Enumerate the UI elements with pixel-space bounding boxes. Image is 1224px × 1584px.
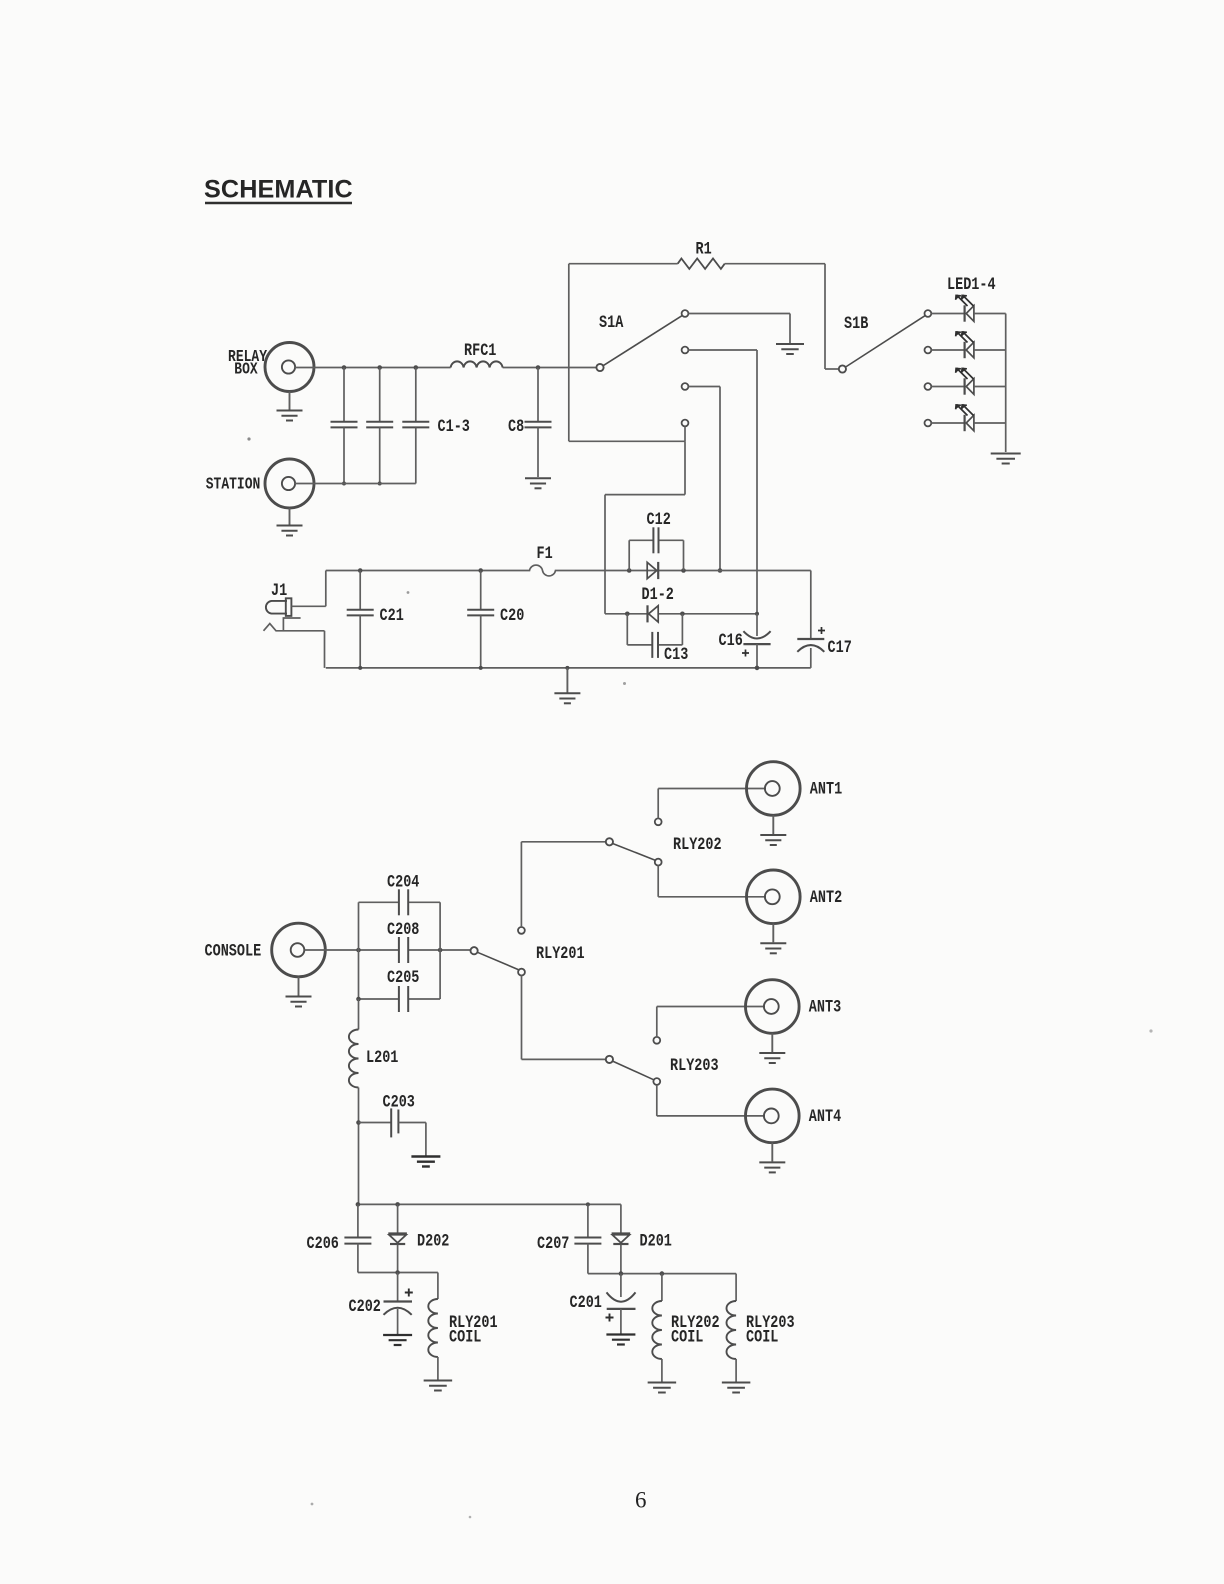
inductor RLY202 coil bbox=[652, 1274, 719, 1382]
switch RLY203 throw up bbox=[653, 1037, 660, 1044]
connector ANT3 bbox=[746, 980, 842, 1034]
capacitor C208 bbox=[387, 920, 419, 963]
wire coil bus left-lower bbox=[358, 1270, 438, 1275]
switch S1B arm bbox=[846, 316, 925, 367]
wire LED2 to rail bbox=[974, 349, 1006, 351]
wire L201 to coil bus bbox=[358, 1088, 360, 1205]
switch S1B throw 2 bbox=[925, 347, 932, 354]
switch S1B throw 1 bbox=[925, 310, 932, 317]
svg-text:C8: C8 bbox=[508, 417, 524, 437]
wire S1A throw2 down bbox=[688, 350, 757, 614]
wire J1 sleeve bbox=[264, 618, 325, 668]
wire S1A throw4 jog down bbox=[605, 441, 685, 614]
switch RLY201 arm bbox=[478, 952, 519, 969]
svg-text:R1: R1 bbox=[696, 239, 712, 259]
switch RLY201 throw up bbox=[518, 927, 525, 934]
switch RLY203 throw down bbox=[653, 1078, 660, 1085]
svg-text:C205: C205 bbox=[387, 968, 419, 988]
fuse F1 label bbox=[537, 544, 553, 564]
wire C13 branch bbox=[627, 614, 682, 645]
connector ANT2 bbox=[747, 870, 843, 924]
capacitor C1 (first of C1-3) bbox=[331, 368, 358, 486]
capacitor C13 bbox=[652, 632, 688, 665]
node: DC top wire dots bbox=[358, 568, 686, 573]
ground (ANT3) bbox=[759, 1033, 785, 1063]
connector ANT4 bbox=[746, 1089, 842, 1143]
switch S1A throw 3 bbox=[682, 383, 689, 390]
svg-text:C12: C12 bbox=[647, 510, 671, 530]
diode D202 bbox=[388, 1204, 449, 1272]
capacitor C12 bbox=[647, 510, 671, 554]
wire D2 branch bbox=[605, 612, 759, 617]
svg-text:C206: C206 bbox=[307, 1234, 339, 1254]
svg-text:S1B: S1B bbox=[844, 314, 868, 334]
capacitor C20 bbox=[467, 571, 524, 668]
wire S1A throw3 down bbox=[688, 387, 722, 573]
wire R1 to S1B bbox=[725, 264, 839, 369]
inductor L201 bbox=[349, 999, 398, 1088]
connector J2 RELAY BOX bbox=[228, 343, 314, 392]
wire console to RLY201 bbox=[305, 948, 471, 953]
connector J3 STATION bbox=[206, 459, 314, 508]
wire S1B throw1 to LED1 bbox=[931, 313, 964, 315]
ground (RLY202 coil) bbox=[648, 1383, 677, 1393]
wire station bus bbox=[295, 483, 416, 485]
wire DC box bottom bbox=[326, 666, 811, 671]
svg-text:C17: C17 bbox=[828, 638, 852, 658]
capacitor C201 electrolytic bbox=[570, 1274, 636, 1334]
svg-text:S1A: S1A bbox=[599, 313, 624, 333]
wire ANT3 feed bbox=[657, 1007, 765, 1037]
wire coil bus right-lower bbox=[588, 1271, 736, 1276]
switch S1B pole bbox=[839, 314, 868, 373]
wire S1A throw1 to ground bbox=[688, 314, 790, 344]
svg-text:BOX: BOX bbox=[234, 361, 257, 379]
ground (C8) bbox=[525, 478, 551, 488]
switch RLY202 pole bbox=[606, 835, 722, 855]
svg-text:C208: C208 bbox=[387, 920, 419, 940]
ground (S1A throw1) bbox=[776, 344, 804, 354]
capacitor C16 bbox=[719, 614, 771, 668]
diode LED4 bbox=[956, 405, 974, 432]
switch RLY203 pole bbox=[606, 1056, 719, 1076]
wire LED3 to rail bbox=[974, 386, 1006, 388]
wire ANT2 feed bbox=[658, 866, 766, 897]
inductor RFC1 bbox=[451, 341, 503, 368]
svg-text:C202: C202 bbox=[349, 1297, 381, 1317]
ground (ANT1) bbox=[760, 815, 786, 845]
inductor RLY201 coil bbox=[428, 1273, 497, 1380]
wire ANT1 feed bbox=[658, 789, 766, 819]
svg-text:COIL: COIL bbox=[671, 1327, 703, 1347]
switch S1A throw 1 bbox=[682, 310, 689, 317]
diode LED3 bbox=[956, 368, 974, 395]
svg-text:ANT1: ANT1 bbox=[810, 779, 842, 799]
switch S1B throw 4 bbox=[925, 420, 932, 427]
wire top to R1 bbox=[569, 263, 678, 265]
svg-text:C204: C204 bbox=[387, 872, 419, 892]
capacitor C2 (second of C1-3) bbox=[366, 368, 393, 486]
switch S1A throw 2 bbox=[682, 347, 689, 354]
svg-text:C21: C21 bbox=[380, 606, 404, 626]
wire S1A throw4 to left riser bbox=[569, 426, 685, 441]
svg-text:C20: C20 bbox=[500, 606, 524, 626]
ground (LED rail) bbox=[991, 454, 1021, 464]
resistor R1 bbox=[678, 239, 725, 269]
svg-text:C1-3: C1-3 bbox=[438, 417, 470, 437]
svg-text:J1: J1 bbox=[271, 581, 287, 601]
switch RLY201 throw down bbox=[518, 969, 525, 976]
ground (C202) bbox=[383, 1335, 412, 1345]
svg-text:RLY201: RLY201 bbox=[536, 944, 585, 964]
switch S1B throw 3 bbox=[925, 383, 932, 390]
wire RLY201 up-throw to RLY202 bbox=[521, 842, 605, 927]
wire C12 branch bbox=[629, 540, 683, 570]
svg-text:F1: F1 bbox=[537, 544, 553, 564]
ground (RLY201 coil) bbox=[424, 1381, 453, 1391]
wire cap box left bbox=[358, 902, 360, 999]
connector ANT1 bbox=[747, 762, 843, 816]
ground (C203) bbox=[411, 1157, 440, 1167]
svg-text:COIL: COIL bbox=[449, 1327, 481, 1347]
diode D1 bbox=[647, 562, 658, 579]
capacitor C3 (third of C1-3) bbox=[402, 368, 429, 484]
switch S1A throw 4 bbox=[682, 420, 689, 427]
page number 6 bbox=[635, 1488, 647, 1513]
wire ANT4 feed bbox=[657, 1085, 765, 1116]
capacitor C17 bbox=[797, 571, 851, 668]
svg-text:D202: D202 bbox=[417, 1231, 449, 1251]
svg-text:LED1-4: LED1-4 bbox=[947, 275, 996, 295]
svg-text:CONSOLE: CONSOLE bbox=[205, 941, 262, 961]
capacitor C21 bbox=[347, 571, 404, 668]
ground (console) bbox=[286, 977, 312, 1007]
capacitor C202 electrolytic bbox=[349, 1273, 413, 1335]
connector J1 power jack bbox=[266, 581, 292, 616]
capacitor C204 bbox=[359, 872, 441, 915]
switch S1A arm bbox=[603, 316, 682, 366]
svg-text:RLY203: RLY203 bbox=[670, 1056, 719, 1076]
svg-text:STATION: STATION bbox=[206, 476, 261, 494]
svg-text:SCHEMATIC: SCHEMATIC bbox=[204, 176, 353, 204]
wire LED4 to rail bbox=[974, 422, 1006, 424]
ground (ANT2) bbox=[760, 924, 786, 954]
ground (ANT4) bbox=[759, 1143, 785, 1173]
wire DC box top bbox=[326, 565, 811, 576]
wire relay-box to S1A pole bbox=[295, 367, 597, 369]
diode D201 bbox=[612, 1204, 672, 1273]
switch S1A pole bbox=[596, 313, 624, 372]
svg-text:ANT3: ANT3 bbox=[809, 997, 841, 1017]
ground (C201) bbox=[606, 1335, 635, 1345]
wire cap box right bbox=[439, 902, 441, 999]
svg-text:D201: D201 bbox=[640, 1231, 672, 1251]
svg-text:C207: C207 bbox=[537, 1234, 569, 1254]
switch RLY201 pole bbox=[471, 944, 585, 964]
wire S1B throw3 to LED3 bbox=[931, 386, 964, 388]
connector J4 CONSOLE bbox=[205, 923, 326, 977]
svg-text:ANT4: ANT4 bbox=[809, 1106, 841, 1126]
svg-text:C203: C203 bbox=[383, 1092, 415, 1112]
capacitor C205 bbox=[356, 968, 440, 1012]
capacitor C203 bbox=[356, 1092, 426, 1155]
svg-text:C16: C16 bbox=[719, 631, 743, 651]
svg-text:C13: C13 bbox=[664, 645, 688, 665]
svg-text:RLY202: RLY202 bbox=[673, 835, 722, 855]
diode LED1 bbox=[956, 295, 974, 322]
switch RLY202 arm bbox=[613, 844, 656, 861]
capacitor C8 bbox=[508, 368, 552, 478]
wire S1B throw4 to LED4 bbox=[931, 422, 964, 424]
svg-text:COIL: COIL bbox=[746, 1327, 778, 1347]
wire LED common rail bbox=[1005, 314, 1007, 453]
switch RLY202 throw down bbox=[655, 859, 662, 866]
svg-text:6: 6 bbox=[635, 1488, 647, 1513]
title SCHEMATIC bbox=[204, 176, 353, 204]
svg-text:ANT2: ANT2 bbox=[810, 887, 842, 907]
switch RLY202 throw up bbox=[655, 818, 662, 825]
wire left riser to R1 bbox=[568, 264, 570, 442]
label D1-2 bbox=[642, 585, 674, 605]
diode LED2 bbox=[956, 332, 974, 359]
diode D2 bbox=[648, 605, 659, 622]
svg-text:C201: C201 bbox=[570, 1293, 602, 1313]
label C1-3 bbox=[438, 417, 470, 437]
wire coil bus top bbox=[356, 1202, 621, 1207]
wire LED1 to rail bbox=[974, 313, 1006, 315]
wire J1 tip to box bbox=[292, 571, 326, 607]
wire RLY201 down-throw to RLY203 bbox=[522, 976, 606, 1060]
svg-text:D1-2: D1-2 bbox=[642, 585, 674, 605]
capacitor C207 bbox=[537, 1204, 601, 1273]
ground (DC supply) bbox=[554, 668, 580, 703]
label LED1-4 bbox=[947, 275, 996, 295]
svg-text:L201: L201 bbox=[366, 1048, 398, 1068]
wire S1B throw2 to LED2 bbox=[931, 349, 964, 351]
ground (station) bbox=[277, 508, 303, 536]
node: main line junction dots bbox=[342, 365, 541, 370]
inductor RLY203 coil bbox=[727, 1274, 795, 1382]
ground (relay box) bbox=[277, 392, 303, 421]
svg-text:RFC1: RFC1 bbox=[464, 341, 496, 361]
capacitor C206 bbox=[307, 1204, 372, 1272]
switch RLY203 arm bbox=[613, 1061, 654, 1080]
ground (RLY203 coil) bbox=[722, 1383, 751, 1393]
